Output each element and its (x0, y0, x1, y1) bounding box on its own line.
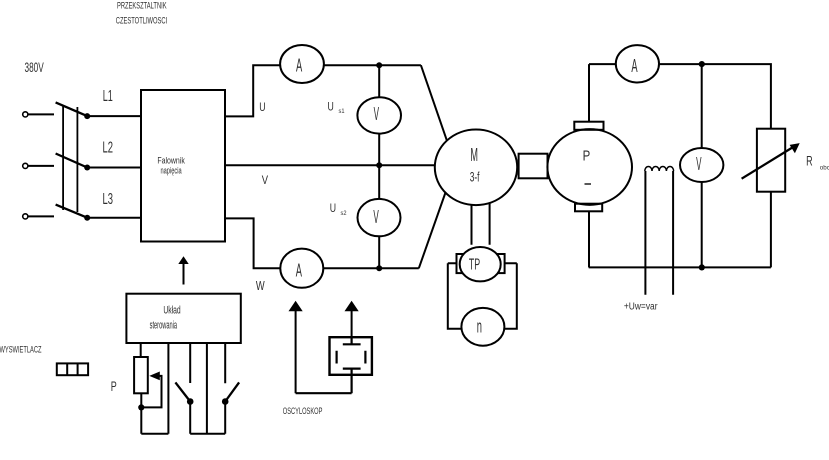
svg-text:U: U (328, 101, 334, 113)
svg-text:Układ: Układ (163, 305, 180, 317)
svg-text:U: U (330, 203, 336, 215)
svg-text:WYSWIETLACZ: WYSWIETLACZ (0, 345, 42, 355)
svg-text:R: R (806, 152, 813, 168)
svg-text:obc: obc (820, 165, 829, 172)
svg-text:napięcia: napięcia (161, 166, 182, 176)
svg-text:V: V (696, 154, 701, 174)
svg-text:L1: L1 (103, 88, 113, 105)
svg-text:+Uw=var: +Uw=var (624, 302, 658, 313)
svg-text:3-f: 3-f (470, 169, 480, 185)
svg-text:P: P (583, 148, 591, 165)
svg-text:V: V (373, 207, 378, 227)
svg-text:PRZEKSZTALTNIK: PRZEKSZTALTNIK (117, 1, 167, 11)
svg-text:CZESTOTLIWOSCI: CZESTOTLIWOSCI (116, 16, 167, 26)
svg-text:A: A (631, 55, 638, 76)
svg-text:TP: TP (469, 256, 480, 273)
svg-text:s1: s1 (339, 108, 345, 115)
svg-text:V: V (374, 104, 379, 124)
svg-text:W: W (256, 278, 265, 293)
svg-text:OSCYLOSKOP: OSCYLOSKOP (283, 406, 323, 417)
svg-text:V: V (262, 175, 269, 187)
svg-text:n: n (477, 316, 482, 336)
svg-text:sterowania: sterowania (150, 320, 178, 332)
svg-text:L3: L3 (103, 191, 114, 208)
svg-text:s2: s2 (341, 210, 347, 217)
svg-text:380V: 380V (25, 59, 45, 75)
svg-text:A: A (296, 259, 303, 280)
svg-text:U: U (259, 102, 265, 114)
svg-text:P: P (111, 379, 117, 394)
svg-text:M: M (470, 145, 478, 165)
svg-text:A: A (296, 55, 303, 76)
svg-text:L2: L2 (103, 140, 114, 157)
svg-text:Falownik: Falownik (157, 156, 185, 166)
